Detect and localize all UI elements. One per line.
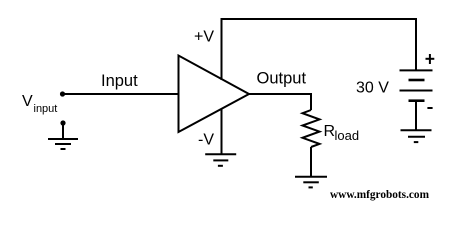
label battery minus [427, 107, 432, 109]
wire +V stub [221, 19, 223, 80]
wire source ground stub [62, 123, 64, 139]
svg-text:input: input [34, 103, 58, 115]
wire top rail [221, 18, 418, 20]
svg-text:R: R [324, 123, 336, 140]
wire resistor to ground [310, 147, 312, 177]
svg-text:-V: -V [198, 132, 214, 149]
svg-text:30 V: 30 V [356, 80, 389, 97]
svg-text:+V: +V [194, 29, 214, 46]
svg-text:www.mfgrobots.com: www.mfgrobots.com [330, 187, 429, 201]
battery 30V [400, 70, 433, 100]
wire battery to ground [415, 101, 417, 131]
label battery plus [426, 54, 435, 64]
svg-text:load: load [335, 128, 360, 143]
svg-text:Input: Input [101, 72, 138, 90]
node input (dot) [60, 91, 65, 96]
svg-text:Output: Output [257, 70, 307, 88]
ground (negative supply) [205, 154, 236, 166]
resistor Rload [303, 110, 320, 147]
node source ground top (dot) [60, 120, 65, 125]
ground (battery) [401, 130, 432, 142]
wire output down [310, 93, 312, 110]
ground (load) [295, 177, 327, 188]
wire input [63, 93, 180, 95]
ground (signal source) [48, 139, 78, 149]
wire output horizontal [249, 93, 312, 95]
wire battery drop [415, 19, 417, 70]
op-amp U1 [179, 56, 250, 133]
wire -V stub [221, 109, 223, 155]
svg-text:V: V [22, 93, 33, 110]
